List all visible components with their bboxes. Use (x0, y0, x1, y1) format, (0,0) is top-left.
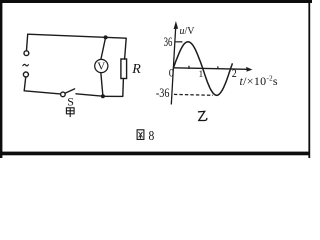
wire left upper (27, 34, 28, 50)
border frame left (0, 0, 2, 158)
svg-text:2: 2 (232, 66, 237, 80)
wire bottom left (24, 91, 60, 94)
tick 1.5 (217, 66, 219, 69)
tick 0.5 (188, 66, 190, 69)
wire top (28, 34, 127, 38)
svg-text:u/V: u/V (180, 26, 196, 37)
voltmeter wire upper (101, 37, 106, 59)
svg-text:S: S (67, 95, 74, 109)
svg-text:1: 1 (199, 70, 204, 80)
voltmeter V circle (95, 59, 108, 72)
graph x-axis (173, 68, 248, 70)
graph y-axis arrowhead (174, 21, 179, 29)
AC source tilde (23, 64, 29, 66)
wire right upper (125, 38, 127, 59)
label yi (Chinese) (198, 111, 207, 120)
svg-text:36: 36 (164, 34, 173, 49)
svg-text:V: V (97, 60, 105, 72)
svg-text:0: 0 (169, 68, 174, 80)
svg-text:8: 8 (149, 129, 155, 144)
node junction top (104, 35, 108, 39)
wire left lower (24, 77, 26, 91)
tick 36 level (175, 41, 183, 43)
dashed line -36 level (174, 93, 213, 96)
figure label: tu 8 (137, 130, 144, 140)
AC source terminal upper (24, 51, 29, 56)
graph x-axis arrowhead (246, 67, 252, 72)
svg-text:t/×10-2s: t/×10-2s (240, 74, 278, 88)
node junction bottom (101, 94, 105, 98)
wire bottom right (103, 95, 123, 97)
wire right lower (122, 79, 125, 97)
voltmeter wire lower (101, 73, 103, 96)
label jia (Chinese) (66, 108, 74, 117)
graph y-axis (171, 27, 175, 105)
svg-text:-36: -36 (156, 85, 170, 100)
resistor R box (121, 59, 127, 79)
wire bottom middle (76, 94, 103, 96)
border frame right (308, 0, 310, 158)
switch S blade (65, 89, 74, 93)
switch S pivot (61, 92, 66, 97)
sine curve u(t) (174, 42, 233, 96)
AC source terminal lower (23, 72, 28, 77)
svg-text:R: R (131, 62, 141, 77)
border frame top (0, 0, 312, 3)
border frame bottom (0, 152, 310, 156)
